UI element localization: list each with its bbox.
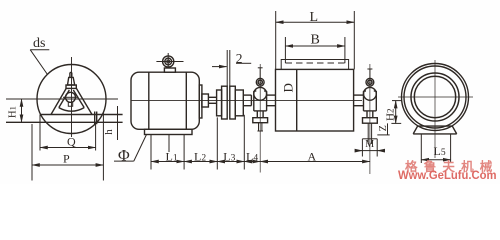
dimension B (285, 32, 345, 63)
box lid dashed line (286, 62, 345, 64)
svg-text:h: h (103, 129, 115, 135)
motor stator line right (185, 72, 187, 129)
svg-text:L2: L2 (194, 149, 206, 163)
dimension L (276, 10, 355, 69)
left block stem (258, 68, 263, 78)
bracket triangle right leg (76, 88, 92, 114)
left block pedestal stem (257, 111, 263, 118)
shaft stub box to right block (354, 95, 364, 106)
box centerline (251, 99, 362, 101)
end view lug (413, 126, 457, 134)
bore circle (66, 92, 76, 102)
dimension Q extension left (39, 115, 41, 151)
svg-text:M: M (365, 139, 374, 150)
dimension L5 (421, 134, 450, 163)
svg-text:L4: L4 (246, 149, 258, 163)
coupling hub right (235, 90, 243, 116)
eyebolt inner circle (165, 58, 172, 65)
end view horizontal centerline (398, 96, 473, 98)
shaft stub coupling to left block (243, 95, 251, 106)
dimension Z (377, 123, 389, 134)
motor bearing step (202, 94, 209, 107)
left block screw (257, 123, 263, 131)
end view outer circle (402, 64, 469, 131)
dimension P extension left (31, 124, 33, 181)
dimension A (260, 149, 370, 163)
bracket flange (66, 85, 76, 88)
right block screw (362, 123, 377, 144)
right block grease cup (366, 78, 374, 86)
left block bearing circle (254, 87, 267, 100)
svg-text:L3: L3 (223, 149, 235, 163)
shaft stub left block to box (267, 95, 276, 106)
bore cross tick (63, 96, 79, 98)
svg-text:H2: H2 (385, 109, 397, 121)
motor end bracket (199, 85, 202, 118)
bracket stem bolt (70, 73, 72, 78)
left block body (254, 91, 267, 111)
belt band top line (40, 114, 123, 116)
pulley outer circle (37, 65, 106, 134)
dimension P (32, 151, 103, 165)
right block body (364, 91, 377, 111)
dimension Q (40, 135, 96, 149)
bracket inner arc (59, 108, 84, 112)
svg-text:L: L (310, 10, 319, 25)
right block stem (367, 69, 372, 78)
watermark (405, 156, 499, 175)
chain extension at coupling left (216, 117, 218, 169)
svg-text:Φ: Φ (118, 148, 130, 165)
coupling flange right (230, 86, 236, 119)
bracket triangle left leg (51, 88, 66, 114)
svg-text:ds: ds (33, 36, 45, 51)
bracket inner left edge (59, 90, 70, 108)
motor centerline (131, 99, 251, 101)
coupling flange left (222, 86, 228, 119)
eyebolt crosshair (156, 53, 183, 68)
svg-text:Q: Q (67, 135, 76, 149)
box body (276, 69, 354, 131)
label ds with leader (30, 36, 49, 74)
right block pedestal stem (367, 111, 373, 118)
pulley vertical centerline (71, 57, 73, 137)
motor shaft (208, 97, 216, 103)
right block foot (363, 118, 378, 124)
motor body (131, 72, 199, 129)
belt band bottom line (6, 121, 123, 123)
svg-text:A: A (308, 149, 317, 163)
svg-text:D: D (281, 83, 296, 92)
bore boss below (68, 102, 72, 106)
dimension 2 leader (212, 50, 251, 86)
left block foot (253, 118, 268, 123)
eyebolt center dot (167, 60, 170, 63)
bracket inner right edge (73, 90, 84, 108)
right bearing block centerline (369, 64, 371, 174)
coupling hub left (217, 90, 222, 116)
left bearing block centerline (259, 64, 261, 173)
motor stator line left (148, 72, 150, 129)
dimension H1 (8, 99, 22, 122)
end view third circle (411, 73, 459, 121)
eyebolt outer circle (163, 56, 174, 67)
dimension h (103, 106, 118, 140)
svg-text:P: P (63, 151, 70, 165)
svg-text:Z: Z (378, 125, 389, 131)
dimension P extension right (102, 112, 104, 181)
motor foot pad (145, 129, 193, 134)
left block grease cup (256, 78, 264, 86)
pulley horizontal centerline (6, 98, 118, 100)
right block bearing circle (364, 87, 377, 100)
svg-text:H1: H1 (8, 106, 19, 118)
end view second circle (404, 66, 466, 128)
bracket cap trapezoid (68, 77, 75, 85)
belt band right edge double vertical (95, 112, 97, 125)
svg-text:B: B (311, 32, 320, 47)
dimension M (357, 139, 384, 157)
chain extension at coupling right (243, 115, 245, 170)
dimension Q extension right (95, 124, 97, 150)
eyebolt base (164, 68, 175, 72)
PHI hole centerline under foot (168, 135, 170, 153)
svg-text:L1: L1 (166, 149, 178, 163)
end view inner circle (414, 76, 455, 117)
end view vertical centerline (434, 60, 436, 158)
box inner vertical (296, 69, 298, 131)
dimension chain line L1-L4 (151, 161, 260, 163)
chain extension at stator (150, 135, 152, 170)
label PHI with leader (114, 135, 147, 165)
dimension H2 (385, 101, 403, 124)
box lid (281, 60, 348, 70)
chain extension at body line (183, 135, 185, 170)
